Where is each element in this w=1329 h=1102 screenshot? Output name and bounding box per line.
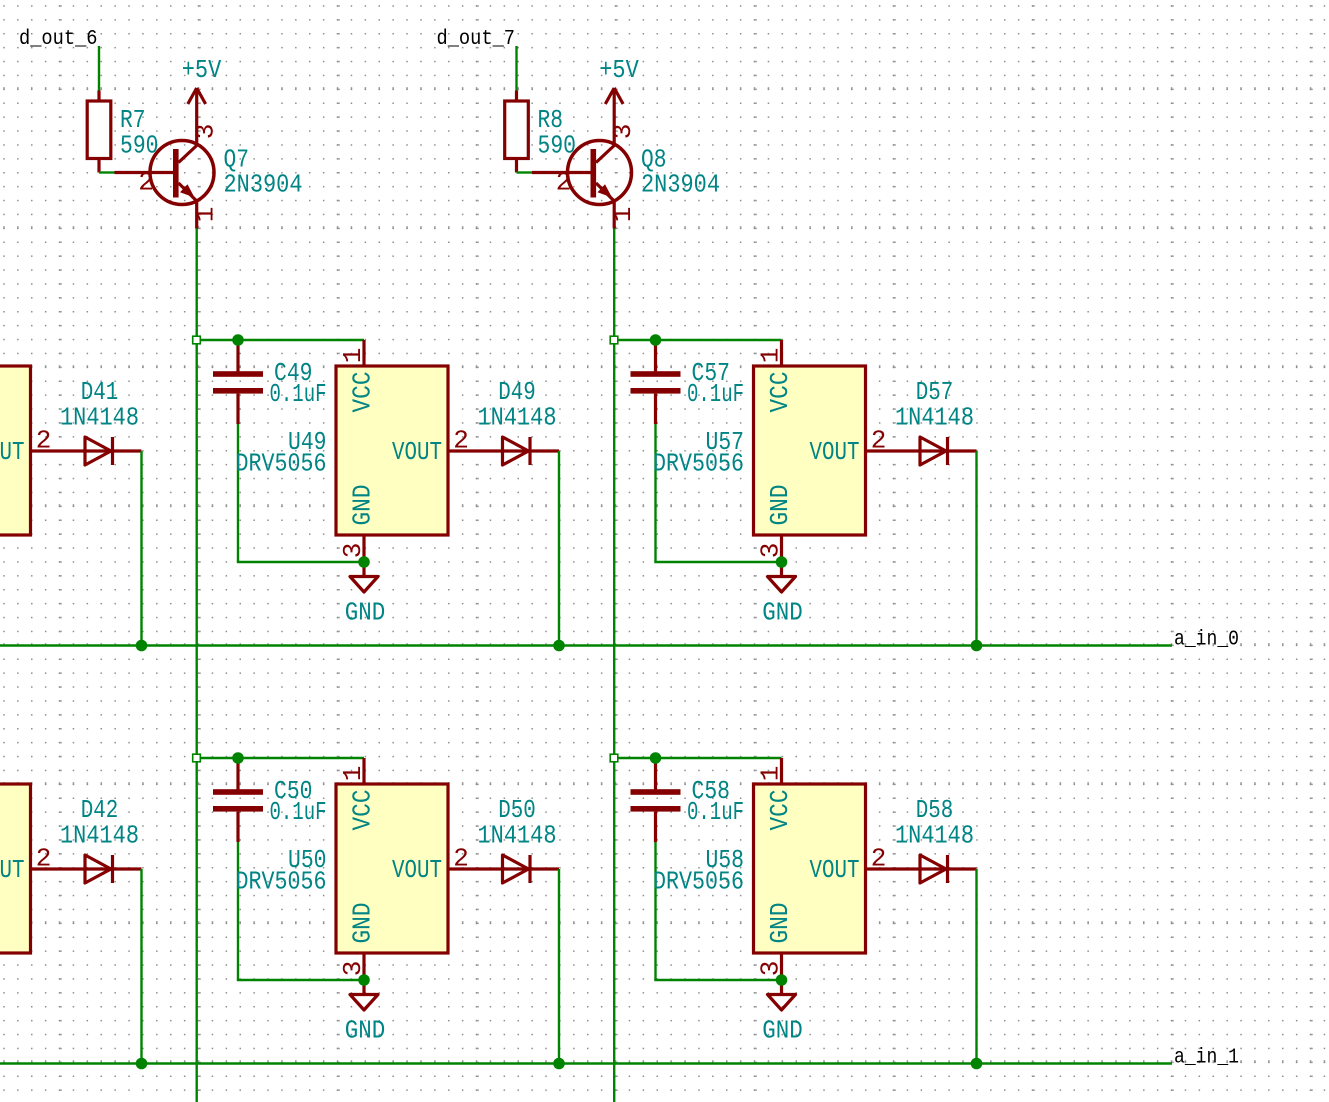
svg-text:0.1uF: 0.1uF xyxy=(270,379,327,409)
junction C49 tap xyxy=(232,334,244,346)
svg-text:1: 1 xyxy=(756,348,786,364)
diode D57 1N4148 xyxy=(895,377,974,465)
unconnected wire end at column U58 xyxy=(610,754,618,762)
wire D41 to a_in xyxy=(140,451,142,646)
svg-text:DRV5056: DRV5056 xyxy=(653,867,744,897)
wire VCC rail U49 xyxy=(197,339,365,341)
op-amp U58 DRV5056 xyxy=(653,758,977,980)
wire D49 to a_in xyxy=(558,451,560,646)
junction U49 pin3 GND xyxy=(358,556,370,568)
svg-text:1: 1 xyxy=(608,207,638,223)
svg-text:2: 2 xyxy=(453,426,469,456)
svg-text:d_out_7: d_out_7 xyxy=(437,28,516,51)
svg-text:2N3904: 2N3904 xyxy=(224,170,303,200)
ground xyxy=(345,980,386,1046)
wire VCC rail U57 xyxy=(614,339,782,341)
diode D58 1N4148 xyxy=(895,795,974,883)
wire D57 to a_in xyxy=(975,451,977,646)
svg-text:3: 3 xyxy=(756,543,786,559)
capacitor C57 0.1uF xyxy=(631,340,745,424)
op-amp U49 DRV5056 xyxy=(236,340,560,562)
wire D50 to a_in xyxy=(558,869,560,1064)
svg-text:2: 2 xyxy=(556,168,572,198)
svg-text:+5V: +5V xyxy=(599,55,639,85)
ground xyxy=(345,562,386,628)
svg-text:2N3904: 2N3904 xyxy=(641,170,720,200)
svg-text:1N4148: 1N4148 xyxy=(478,403,557,433)
svg-text:GND: GND xyxy=(762,598,803,628)
resistor R7 590 xyxy=(87,91,158,173)
svg-text:DRV5056: DRV5056 xyxy=(236,867,327,897)
capacitor C58 0.1uF xyxy=(631,758,745,842)
junction C57 tap xyxy=(650,334,662,346)
svg-text:1N4148: 1N4148 xyxy=(895,403,974,433)
wire VCC rail U58 xyxy=(614,757,782,759)
svg-text:2: 2 xyxy=(871,844,887,874)
wire C49 to GND junction xyxy=(237,424,239,562)
svg-text:VOUT: VOUT xyxy=(392,855,442,885)
svg-text:2: 2 xyxy=(36,426,52,456)
svg-text:GND: GND xyxy=(345,598,386,628)
junction U50 pin3 GND xyxy=(358,974,370,986)
svg-text:2: 2 xyxy=(36,844,52,874)
svg-text:3: 3 xyxy=(191,124,221,140)
svg-text:VCC: VCC xyxy=(348,790,378,831)
svg-text:1N4148: 1N4148 xyxy=(60,821,139,851)
svg-text:1N4148: 1N4148 xyxy=(478,821,557,851)
junction D58 on a_in xyxy=(971,1058,983,1070)
power +5V xyxy=(599,55,639,115)
wire Q8 emitter column xyxy=(613,229,615,1102)
svg-text:VOUT: VOUT xyxy=(392,437,442,467)
svg-text:2: 2 xyxy=(453,844,469,874)
net a_in_1 xyxy=(0,1062,1172,1064)
svg-text:3: 3 xyxy=(608,124,638,140)
junction D41 on a_in xyxy=(136,640,148,652)
svg-text:+5V: +5V xyxy=(182,55,222,85)
junction D42 on a_in xyxy=(136,1058,148,1070)
svg-text:0.1uF: 0.1uF xyxy=(687,379,744,409)
unconnected wire end at column U50 xyxy=(193,754,201,762)
junction C50 tap xyxy=(232,752,244,764)
diode D42 1N4148 xyxy=(60,795,139,883)
junction C58 tap xyxy=(650,752,662,764)
svg-text:d_out_6: d_out_6 xyxy=(19,28,98,51)
wire C58 to GND junction xyxy=(654,842,656,980)
svg-text:3: 3 xyxy=(338,961,368,977)
transistor Q7 2N3904 xyxy=(115,115,303,229)
wire Q7 emitter column xyxy=(195,229,197,1102)
svg-text:VOUT: VOUT xyxy=(810,437,860,467)
svg-text:GND: GND xyxy=(765,903,795,944)
ground xyxy=(762,562,803,628)
svg-text:3: 3 xyxy=(756,961,786,977)
junction D57 on a_in xyxy=(971,640,983,652)
transistor Q8 2N3904 xyxy=(532,115,720,229)
wire d_out_6 to R7 xyxy=(98,46,100,91)
power +5V xyxy=(182,55,222,115)
svg-text:GND: GND xyxy=(765,485,795,526)
svg-text:1: 1 xyxy=(338,348,368,364)
svg-text:VOUT: VOUT xyxy=(0,437,25,467)
svg-text:VOUT: VOUT xyxy=(810,855,860,885)
svg-text:VOUT: VOUT xyxy=(0,855,25,885)
junction U58 pin3 GND xyxy=(776,974,788,986)
net a_in_0 xyxy=(0,644,1172,646)
op-amp U50 DRV5056 xyxy=(236,758,560,980)
svg-text:VCC: VCC xyxy=(765,372,795,413)
svg-text:1: 1 xyxy=(756,766,786,782)
svg-text:VCC: VCC xyxy=(348,372,378,413)
unconnected wire end at column U57 xyxy=(610,336,618,344)
resistor R8 590 xyxy=(505,91,576,173)
svg-text:3: 3 xyxy=(338,543,368,559)
svg-text:DRV5056: DRV5056 xyxy=(236,449,327,479)
junction D50 on a_in xyxy=(553,1058,565,1070)
svg-text:DRV5056: DRV5056 xyxy=(653,449,744,479)
svg-text:VCC: VCC xyxy=(765,790,795,831)
wire R8 to Q8 base xyxy=(517,171,533,173)
svg-text:1: 1 xyxy=(338,766,368,782)
svg-text:GND: GND xyxy=(345,1016,386,1046)
op-amp U-left-bottom DRV5056 xyxy=(0,784,142,953)
junction D49 on a_in xyxy=(553,640,565,652)
svg-text:0.1uF: 0.1uF xyxy=(270,797,327,827)
unconnected wire end at column U49 xyxy=(193,336,201,344)
wire R7 to Q7 base xyxy=(99,171,115,173)
svg-text:0.1uF: 0.1uF xyxy=(687,797,744,827)
diode D41 1N4148 xyxy=(60,377,139,465)
wire D58 to a_in xyxy=(975,869,977,1064)
wire d_out_7 to R8 xyxy=(515,46,517,91)
junction U57 pin3 GND xyxy=(776,556,788,568)
svg-text:a_in_1: a_in_1 xyxy=(1174,1047,1239,1070)
svg-text:GND: GND xyxy=(348,903,378,944)
wire C50 to GND junction xyxy=(237,842,239,980)
op-amp U57 DRV5056 xyxy=(653,340,977,562)
diode D50 1N4148 xyxy=(478,795,557,883)
op-amp U-left-top DRV5056 xyxy=(0,366,142,535)
svg-text:2: 2 xyxy=(138,168,154,198)
capacitor C50 0.1uF xyxy=(213,758,327,842)
svg-text:GND: GND xyxy=(762,1016,803,1046)
capacitor C49 0.1uF xyxy=(213,340,327,424)
wire D42 to a_in xyxy=(140,869,142,1064)
wire VCC rail U50 xyxy=(197,757,365,759)
diode D49 1N4148 xyxy=(478,377,557,465)
svg-text:1N4148: 1N4148 xyxy=(895,821,974,851)
svg-text:a_in_0: a_in_0 xyxy=(1174,629,1239,652)
svg-text:2: 2 xyxy=(871,426,887,456)
wire C57 to GND junction xyxy=(654,424,656,562)
svg-text:GND: GND xyxy=(348,485,378,526)
svg-text:1N4148: 1N4148 xyxy=(60,403,139,433)
ground xyxy=(762,980,803,1046)
svg-text:1: 1 xyxy=(191,207,221,223)
